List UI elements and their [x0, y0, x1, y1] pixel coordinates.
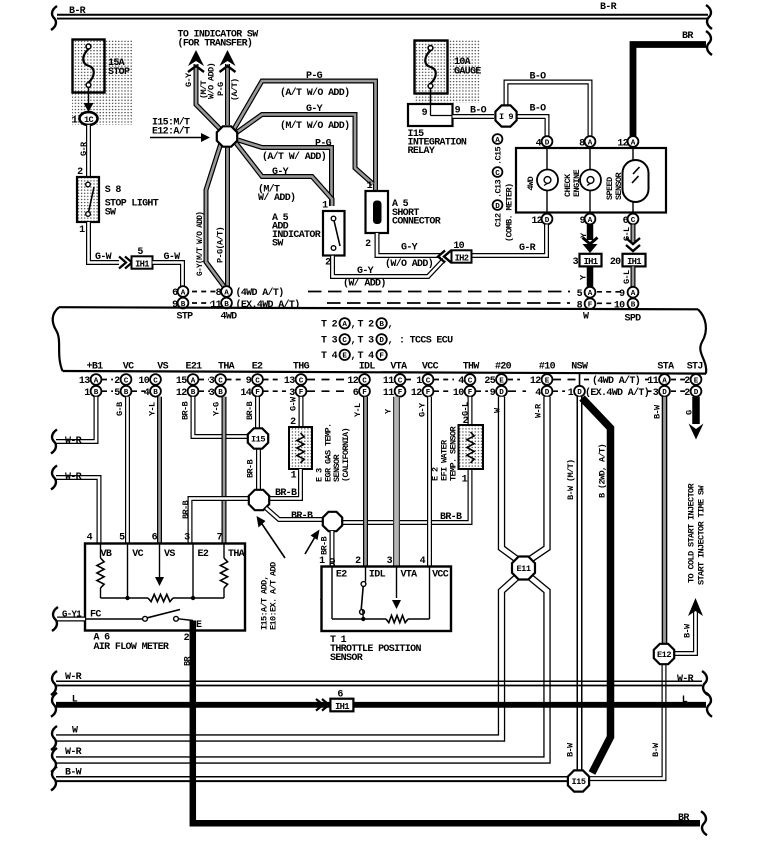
wire W #20 through E11 [56, 397, 517, 738]
svg-text:I15: I15 [251, 435, 265, 445]
svg-text:P-G: P-G [306, 71, 323, 82]
wire L thick [56, 702, 706, 708]
svg-text:11: 11 [647, 376, 658, 387]
svg-text:W-R: W-R [65, 747, 82, 758]
svg-text:C: C [153, 377, 158, 385]
svg-text:TO COLD START INJECTOR: TO COLD START INJECTOR [687, 483, 697, 583]
speed sensor [632, 148, 634, 160]
wire fuse to 1C [88, 87, 90, 107]
svg-text:D: D [577, 389, 582, 397]
svg-text:#10: #10 [539, 362, 556, 373]
wire BR-B junction2 right to water temp sensor [342, 469, 470, 523]
svg-text:15: 15 [176, 376, 187, 387]
annotation arrow to junction1 [261, 523, 285, 559]
wire Y-L IDL [363, 397, 368, 567]
svg-text:(A/T W/O ADD): (A/T W/O ADD) [280, 87, 349, 99]
svg-text:IDL: IDL [369, 570, 386, 581]
svg-text:4: 4 [87, 533, 93, 544]
svg-text:6: 6 [337, 690, 343, 701]
svg-text:E: E [694, 377, 699, 385]
wire BR (E) thick down [193, 621, 700, 824]
svg-text:C: C [398, 377, 403, 385]
svg-text:IH1: IH1 [584, 257, 598, 267]
svg-text:SPD: SPD [625, 314, 642, 325]
svg-text:E21: E21 [186, 362, 203, 373]
wire G-Y (W/O ADD) shortconn to IH2 [377, 233, 441, 256]
TCCS ECU band [59, 307, 698, 309]
junction octagon I15 (mid) [248, 428, 268, 448]
junction IH2 chevrons redrawn [438, 251, 451, 263]
svg-text:TEMP. SENSOR: TEMP. SENSOR [449, 426, 459, 481]
svg-text:B (2WD, A/T): B (2WD, A/T) [598, 444, 608, 498]
svg-text:L: L [682, 695, 688, 706]
svg-text:4: 4 [458, 376, 464, 387]
svg-text:2: 2 [365, 239, 371, 250]
svg-text:4: 4 [536, 139, 542, 150]
svg-text:Y-L: Y-L [353, 403, 363, 417]
svg-text:T 2: T 2 [321, 320, 338, 331]
svg-text:E10:EX. A/T ADD: E10:EX. A/T ADD [269, 562, 279, 630]
svg-text:(FOR TRANSFER): (FOR TRANSFER) [178, 38, 253, 50]
svg-text:BR-B: BR-B [181, 501, 191, 519]
svg-text:1: 1 [416, 376, 422, 387]
wire BR-B junction2 down to TPS pin1 [330, 531, 335, 567]
svg-text:3: 3 [209, 388, 215, 399]
svg-text:A: A [631, 139, 636, 147]
svg-text:1: 1 [319, 556, 325, 567]
svg-text:C12: C12 [494, 213, 504, 227]
wire EGR to BR-B junction [270, 469, 301, 499]
svg-text:IH1: IH1 [135, 259, 149, 269]
svg-text:(A/T): (A/T) [230, 79, 240, 102]
svg-text:2: 2 [114, 376, 120, 387]
svg-text:Y-G: Y-G [212, 402, 222, 416]
svg-text:D: D [379, 337, 384, 345]
switch S8 STOP LIGHT SW [77, 177, 99, 222]
lamp 4WD [546, 148, 548, 170]
svg-text:BR: BR [678, 813, 689, 824]
svg-text:C: C [468, 377, 473, 385]
svg-text:P-G(A/T): P-G(A/T) [216, 227, 226, 263]
svg-text:VB: VB [101, 549, 112, 560]
svg-text:5: 5 [119, 533, 125, 544]
svg-text:S 8: S 8 [105, 185, 122, 196]
svg-text:D: D [545, 217, 550, 225]
svg-text:F: F [299, 389, 304, 397]
svg-text:T 4: T 4 [358, 351, 375, 362]
svg-text:A: A [588, 139, 593, 147]
wire G STJ arrow down [692, 397, 700, 424]
svg-text:(A/T W/ ADD): (A/T W/ ADD) [262, 151, 326, 163]
svg-text:D: D [499, 389, 504, 397]
wire Y from 9A to IH1(3) [587, 225, 594, 241]
svg-text:12: 12 [347, 376, 358, 387]
wire B-O to 4D [516, 117, 547, 138]
connector A5 SHORT CONNECTOR [366, 191, 389, 233]
svg-text:F: F [468, 389, 473, 397]
svg-text:1: 1 [84, 388, 90, 399]
svg-text:W/ ADD): W/ ADD) [258, 192, 295, 204]
svg-text:VS: VS [164, 549, 175, 560]
svg-text:VS: VS [157, 362, 168, 373]
svg-text:D: D [662, 389, 667, 397]
svg-text:I15: I15 [572, 777, 586, 787]
svg-text:A: A [181, 289, 186, 297]
svg-text:,: , [388, 336, 393, 347]
junction octagon spider [217, 126, 237, 146]
wire BR-B E2 to I15 octagon [255, 397, 260, 428]
junction IH1 (6) on L [316, 699, 329, 711]
svg-text:10: 10 [453, 241, 464, 252]
svg-text:W: W [583, 312, 589, 323]
svg-text:BR-B: BR-B [320, 537, 330, 555]
svg-text:+B1: +B1 [87, 362, 104, 373]
svg-text:,: , [351, 336, 356, 347]
svg-text:G-W: G-W [289, 396, 299, 411]
svg-text:6: 6 [152, 533, 158, 544]
comb meter box [516, 148, 666, 213]
svg-text:VTA: VTA [401, 570, 418, 581]
svg-text:SW: SW [272, 239, 283, 250]
svg-text:13: 13 [284, 376, 295, 387]
wire B-W STA to E12 [662, 397, 668, 643]
wire fuse to relay [430, 88, 432, 104]
wire BR bottom bracket [701, 811, 707, 835]
svg-text:P-G: P-G [315, 139, 332, 150]
svg-text:B-W: B-W [651, 742, 661, 757]
wire BR-B junction1 to junction2 [266, 508, 323, 520]
svg-text:BR-B: BR-B [291, 511, 313, 522]
svg-text:.C15: .C15 [494, 147, 504, 165]
wire G-R [86, 125, 91, 179]
svg-text:12: 12 [411, 388, 422, 399]
wire Y-L VS [157, 397, 162, 544]
svg-text:B-W: B-W [566, 742, 576, 757]
svg-text:9: 9 [422, 108, 428, 119]
junction octagon I15 (bottom) [568, 770, 589, 791]
svg-text:1: 1 [322, 201, 328, 212]
svg-text:B-W: B-W [653, 404, 663, 419]
svg-text:STOP: STOP [108, 67, 130, 78]
svg-text:2: 2 [184, 633, 190, 644]
svg-text:G-Y: G-Y [272, 167, 289, 178]
svg-text:BR: BR [682, 31, 693, 42]
svg-text:T 3: T 3 [321, 336, 338, 347]
svg-text:SW: SW [105, 208, 116, 219]
svg-text:4: 4 [535, 388, 541, 399]
wire G-W THG to EGR sensor [299, 397, 304, 428]
svg-text:D: D [495, 203, 500, 211]
svg-text:P-G: P-G [216, 82, 226, 96]
svg-text:10: 10 [453, 388, 464, 399]
wire G-Y1 FC [57, 617, 85, 622]
svg-text:B-O: B-O [530, 104, 547, 115]
dashed runs to right [308, 291, 570, 293]
svg-text:E12: E12 [657, 650, 671, 660]
svg-text:E12:A/T: E12:A/T [152, 126, 190, 138]
svg-text:4: 4 [144, 388, 150, 399]
svg-text:D: D [545, 139, 550, 147]
svg-text:13: 13 [79, 376, 90, 387]
meter A6 AIR FLOW METER box [85, 544, 245, 631]
svg-text:A: A [94, 377, 99, 385]
svg-text:25: 25 [484, 376, 495, 387]
svg-text:C: C [495, 170, 500, 178]
svg-text:(EX.4WD A/T): (EX.4WD A/T) [585, 387, 649, 399]
svg-text:3: 3 [653, 388, 659, 399]
svg-text:G-Y: G-Y [306, 104, 323, 115]
svg-text:BR: BR [183, 656, 193, 666]
svg-text:E11: E11 [517, 564, 531, 574]
svg-text:THA: THA [218, 362, 235, 373]
svg-text:W: W [72, 726, 78, 737]
wire P-G (A/T W/O ADD) [234, 81, 376, 192]
svg-text:C: C [426, 377, 431, 385]
node 8A / 11B (4WD) [192, 291, 216, 293]
svg-text:12: 12 [176, 388, 187, 399]
svg-text:G-R: G-R [519, 243, 536, 254]
junction IH2 (10) [438, 251, 451, 263]
svg-text:: TCCS ECU: : TCCS ECU [399, 336, 453, 347]
wire G-Y (W/ ADD) addsw to IH2 [333, 256, 445, 277]
svg-text:E: E [196, 620, 202, 631]
svg-text:B: B [153, 389, 158, 397]
svg-text:G-L: G-L [461, 402, 471, 416]
wire B-W (M/T) NSW [577, 397, 583, 771]
svg-text:T 4: T 4 [321, 351, 338, 362]
svg-text:T 3: T 3 [358, 336, 375, 347]
svg-text:G: G [685, 410, 695, 415]
wire BR-B E21 to I15 octagon [193, 397, 247, 437]
svg-text:1: 1 [291, 471, 297, 482]
wire relay to I9 [453, 114, 495, 119]
wire BR-B junction1 to air flow meter pin 3 [190, 499, 268, 545]
wire Y-G THA [222, 397, 227, 544]
svg-text:7: 7 [217, 533, 223, 544]
svg-text:14: 14 [240, 388, 251, 399]
svg-text:#20: #20 [495, 362, 512, 373]
svg-text:VC: VC [123, 362, 134, 373]
svg-text:9: 9 [619, 289, 625, 300]
svg-text:B: B [379, 321, 384, 329]
svg-text:G-Y(M/T W/O ADD): G-Y(M/T W/O ADD) [197, 212, 205, 276]
svg-text:L: L [72, 695, 78, 706]
wire B-W E12 up arrow [675, 612, 696, 654]
svg-text:E: E [342, 353, 347, 361]
fuse 15A STOP [72, 39, 133, 125]
svg-text:W-R: W-R [65, 436, 82, 447]
svg-text:C: C [362, 377, 367, 385]
switch A5 ADD INDICATOR SW [323, 211, 345, 256]
junction octagon I 9 [495, 105, 516, 126]
svg-text:5: 5 [137, 247, 143, 258]
fuse 10A GAUGE [414, 40, 480, 103]
svg-text:(COMB. METER): (COMB. METER) [505, 184, 515, 242]
svg-text:T 2: T 2 [358, 320, 375, 331]
svg-text:A: A [191, 377, 196, 385]
svg-text:AIR FLOW METER: AIR FLOW METER [94, 642, 169, 653]
wire P-G(A/T) down [225, 146, 230, 287]
svg-text:E2: E2 [198, 549, 209, 560]
svg-text:3: 3 [184, 533, 190, 544]
svg-text:C: C [218, 377, 223, 385]
svg-text:6: 6 [353, 388, 359, 399]
svg-text:(CALIFORNIA): (CALIFORNIA) [341, 428, 351, 482]
wire G-L THW to water temp sensor [468, 397, 473, 425]
svg-text:(W/O ADD): (W/O ADD) [385, 258, 433, 270]
svg-text:G-B: G-B [115, 402, 125, 416]
svg-text:ENGINE: ENGINE [572, 170, 582, 197]
svg-text:3: 3 [387, 556, 393, 567]
svg-text:SENSOR: SENSOR [614, 172, 624, 200]
svg-text:SENSOR: SENSOR [330, 653, 363, 664]
svg-text:B-R: B-R [600, 2, 617, 13]
svg-text:BR-B: BR-B [440, 512, 462, 523]
svg-text:11: 11 [210, 300, 221, 311]
wire B-O upper to 8A [506, 82, 590, 137]
svg-text:E2: E2 [336, 570, 347, 581]
svg-text:2: 2 [355, 556, 361, 567]
svg-text:,: , [351, 351, 356, 362]
svg-text:2: 2 [684, 388, 690, 399]
svg-text:G-Y: G-Y [401, 243, 418, 254]
svg-text:G-L: G-L [622, 270, 632, 284]
svg-text:BR-B: BR-B [245, 402, 255, 420]
wire B-R bus [57, 14, 708, 16]
svg-text:G-L: G-L [622, 227, 632, 241]
svg-text:A: A [342, 321, 347, 329]
svg-text:A: A [631, 290, 636, 298]
wire G-W via IH1 junction 5 [89, 222, 120, 263]
svg-text:C: C [255, 377, 260, 385]
svg-text:B: B [94, 389, 99, 397]
wire P-G [A/T] to indicator sw [225, 64, 230, 125]
wire BR (top right) [633, 45, 706, 140]
svg-text:E: E [545, 377, 550, 385]
svg-text:1: 1 [568, 388, 574, 399]
svg-text:VCC: VCC [422, 362, 439, 373]
svg-text:11: 11 [383, 376, 394, 387]
svg-text:RELAY: RELAY [408, 146, 435, 157]
svg-text:A: A [224, 289, 229, 297]
svg-text:STA: STA [657, 362, 674, 373]
svg-text:1: 1 [367, 181, 373, 192]
svg-text:C: C [631, 217, 636, 225]
svg-text:A: A [588, 217, 593, 225]
svg-text:STP: STP [177, 312, 194, 323]
svg-text:GAUGE: GAUGE [454, 67, 481, 78]
wire B (2WD, A/T) thick [582, 398, 611, 773]
svg-text:B-W: B-W [683, 623, 693, 638]
svg-text:5: 5 [577, 289, 583, 300]
svg-text:E2: E2 [252, 362, 263, 373]
svg-text:(4WD A/T): (4WD A/T) [236, 287, 284, 299]
svg-text:START INJECTOR TIME SW: START INJECTOR TIME SW [697, 485, 707, 585]
svg-text:4WD: 4WD [221, 312, 238, 323]
svg-text:12: 12 [530, 376, 541, 387]
svg-text:W/O ADD): W/O ADD) [207, 63, 217, 99]
svg-text:STJ: STJ [687, 362, 703, 373]
svg-text:A: A [662, 377, 667, 385]
svg-text:G-W: G-W [95, 252, 112, 263]
svg-text:C: C [299, 377, 304, 385]
svg-text:G-R: G-R [79, 141, 89, 156]
wire B-W bottom to I15 [56, 776, 567, 778]
sensor T1 THROTTLE POSITION SENSOR box [322, 567, 452, 632]
svg-text:A: A [495, 137, 500, 145]
svg-text:B-O: B-O [530, 72, 547, 83]
svg-text:THA: THA [228, 549, 245, 560]
svg-text:20: 20 [610, 257, 621, 268]
svg-text:E: E [499, 377, 504, 385]
svg-text:9: 9 [246, 376, 252, 387]
wire G-B VC [125, 397, 130, 544]
svg-text:,: , [351, 320, 356, 331]
svg-text:F: F [398, 389, 403, 397]
svg-text:1: 1 [462, 475, 468, 486]
svg-text:(4WD A/T): (4WD A/T) [592, 375, 640, 387]
svg-text:3: 3 [209, 376, 215, 387]
svg-text:VC: VC [132, 549, 143, 560]
wire G-Y (M/T W/ ADD) [236, 143, 332, 206]
svg-text:BR-B: BR-B [275, 488, 297, 499]
svg-text:B-W (M/T): B-W (M/T) [566, 460, 576, 500]
wire BR-B I15 octagon to BR-B junction [256, 449, 261, 490]
svg-text:3: 3 [289, 388, 295, 399]
svg-text:W-R: W-R [65, 672, 82, 683]
svg-text:G-Y: G-Y [418, 402, 428, 417]
svg-text:F: F [362, 389, 367, 397]
svg-text:1: 1 [79, 225, 85, 236]
svg-text:W-R: W-R [534, 403, 544, 418]
wire Y VTA [393, 397, 400, 567]
svg-text:B: B [191, 389, 196, 397]
wire G-Y [M/T W/O ADD] to indicator sw [196, 64, 220, 129]
svg-text:THG: THG [293, 362, 310, 373]
svg-text:VTA: VTA [390, 362, 407, 373]
wire W-R bottom [56, 680, 702, 682]
annotation arrow to junction2 [305, 537, 315, 554]
svg-text:B: B [124, 389, 129, 397]
relay I15 INTEGRATION RELAY [408, 104, 453, 126]
svg-text:(M/T W/O ADD): (M/T W/O ADD) [280, 120, 349, 132]
svg-text:F: F [379, 353, 384, 361]
svg-text:B: B [218, 389, 223, 397]
svg-text:BR-B: BR-B [246, 460, 256, 478]
svg-text:1C: 1C [84, 115, 93, 125]
wire P-G (A/T W/ ADD) [238, 140, 332, 206]
junction IH1 (5) [132, 256, 153, 268]
svg-text:VCC: VCC [432, 570, 449, 581]
svg-text:9: 9 [490, 388, 496, 399]
svg-text:NSW: NSW [571, 362, 588, 373]
svg-text:D: D [694, 389, 699, 397]
svg-text:C: C [124, 377, 129, 385]
wire B-W E12 down to I15 [590, 665, 664, 779]
svg-text:10: 10 [138, 376, 149, 387]
svg-text:.C13: .C13 [494, 180, 504, 198]
svg-text:W-R: W-R [65, 472, 82, 483]
svg-text:IDL: IDL [359, 362, 376, 373]
svg-text:IH1: IH1 [627, 257, 641, 267]
wire W-R to airflow pin4 [56, 478, 99, 545]
wire G-R from 12D to IH2 [472, 225, 547, 256]
svg-text:4: 4 [420, 556, 426, 567]
lamp CHECK ENGINE [589, 148, 591, 170]
svg-text:5: 5 [114, 388, 120, 399]
svg-text:C: C [342, 337, 347, 345]
svg-text:THW: THW [463, 362, 480, 373]
